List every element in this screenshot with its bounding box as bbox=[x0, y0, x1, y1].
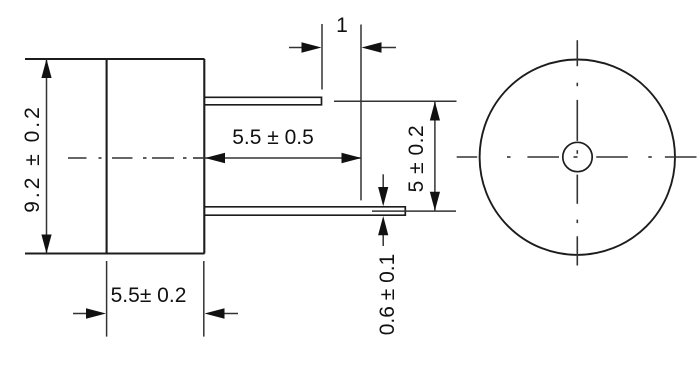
upper arrow tail bbox=[382, 174, 384, 188]
bottom extension line bbox=[372, 210, 456, 212]
left extension line bbox=[106, 261, 108, 337]
front view vertical center line bbox=[576, 40, 578, 66]
dimension 0.6 +/- 0.1 bbox=[382, 174, 384, 246]
svg-text:5.5± 0.2: 5.5± 0.2 bbox=[111, 284, 187, 307]
dimension 1 (top) bbox=[289, 24, 396, 200]
body left edge bbox=[106, 59, 108, 254]
right extension line bbox=[360, 25, 362, 201]
dimension 5.5 +/- 0.2 (bottom) bbox=[73, 261, 238, 337]
dimension 9.2 +/- 0.2 bbox=[46, 59, 48, 254]
top lead outline bbox=[205, 97, 322, 105]
svg-text:5 ± 0.2: 5 ± 0.2 bbox=[405, 125, 428, 193]
center lines dash-dot bbox=[68, 40, 697, 265]
lower arrow tail bbox=[382, 234, 384, 246]
top extension line bbox=[334, 100, 457, 102]
left arrow tail bbox=[73, 313, 88, 315]
bottom lead outline bbox=[205, 207, 406, 215]
right extension line bbox=[203, 261, 205, 337]
dimension 5.5 +/- 0.5 bbox=[205, 157, 362, 159]
left extension line bbox=[321, 24, 323, 90]
svg-text:9.2 ± 0.2: 9.2 ± 0.2 bbox=[21, 104, 44, 213]
svg-text:1: 1 bbox=[336, 14, 348, 37]
svg-text:0.6 ± 0.1: 0.6 ± 0.1 bbox=[376, 254, 399, 336]
body bottom edge (extended left) bbox=[25, 252, 205, 254]
right arrow tail bbox=[380, 47, 396, 49]
front view horizontal center line bbox=[457, 156, 478, 158]
dimension line bbox=[434, 102, 436, 211]
body right edge bbox=[203, 59, 205, 254]
left view horizontal center line bbox=[68, 157, 87, 159]
right arrow tail bbox=[223, 313, 238, 315]
left arrow tail bbox=[289, 47, 303, 49]
dimension 5 +/- 0.2 bbox=[334, 101, 457, 211]
inner circle (front view hole) bbox=[563, 142, 592, 171]
body top edge (extended left as extension line) bbox=[25, 58, 205, 60]
outer circle (front view) bbox=[480, 60, 675, 255]
svg-text:5.5 ± 0.5: 5.5 ± 0.5 bbox=[232, 126, 314, 149]
